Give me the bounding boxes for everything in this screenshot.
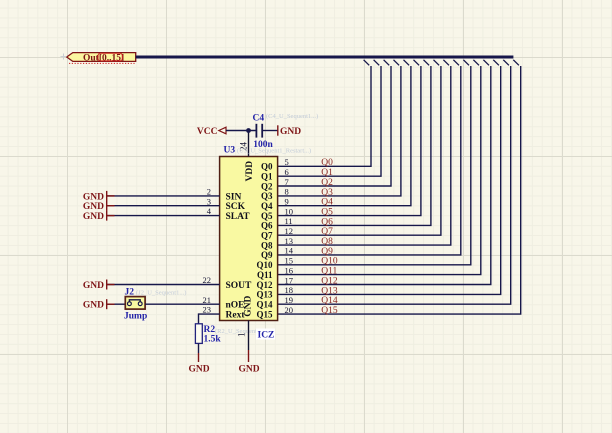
svg-text:Q13: Q13 <box>256 290 273 300</box>
svg-text:Q14: Q14 <box>321 296 338 306</box>
svg-text:U3: U3 <box>224 145 236 155</box>
svg-text:Q1: Q1 <box>261 172 273 182</box>
svg-text:20: 20 <box>285 305 294 315</box>
svg-text:(U3_U_Sequent1_Restart...): (U3_U_Sequent1_Restart...) <box>237 148 311 155</box>
svg-text:Q11: Q11 <box>257 270 273 280</box>
svg-text:Q0: Q0 <box>321 158 333 168</box>
svg-text:Q2: Q2 <box>321 178 333 188</box>
svg-text:Q9: Q9 <box>321 247 333 257</box>
svg-text:Q0: Q0 <box>261 162 273 172</box>
svg-text:SIN: SIN <box>226 192 242 202</box>
svg-text:Q9: Q9 <box>261 250 273 260</box>
svg-text:GND: GND <box>83 202 104 212</box>
svg-text:ICZ: ICZ <box>258 331 275 341</box>
svg-text:GND: GND <box>188 364 209 374</box>
svg-text:3: 3 <box>207 196 211 206</box>
svg-text:Q8: Q8 <box>261 240 273 250</box>
svg-text:Q6: Q6 <box>321 217 333 227</box>
svg-text:21: 21 <box>203 295 212 305</box>
svg-text:Q10: Q10 <box>256 260 273 270</box>
svg-text:Q3: Q3 <box>321 188 333 198</box>
svg-text:VCC: VCC <box>197 127 218 137</box>
svg-text:10: 10 <box>285 206 294 216</box>
svg-text:Q15: Q15 <box>256 309 273 319</box>
svg-text:19: 19 <box>285 295 294 305</box>
svg-text:GND: GND <box>83 281 104 291</box>
svg-text:SCK: SCK <box>226 202 246 212</box>
svg-text:Jump: Jump <box>124 312 147 322</box>
svg-text:1: 1 <box>237 333 247 338</box>
svg-text:1.5k: 1.5k <box>204 334 222 344</box>
svg-text:Q2: Q2 <box>261 181 273 191</box>
svg-text:15: 15 <box>285 256 294 266</box>
svg-text:9: 9 <box>285 197 289 207</box>
svg-text:5: 5 <box>285 157 289 167</box>
svg-text:GND: GND <box>83 301 104 311</box>
svg-text:12: 12 <box>285 226 294 236</box>
svg-text:4: 4 <box>207 206 212 216</box>
svg-text:Q5: Q5 <box>261 211 273 221</box>
svg-text:16: 16 <box>285 265 294 275</box>
svg-text:11: 11 <box>285 216 293 226</box>
svg-text:17: 17 <box>285 275 294 285</box>
svg-text:Q7: Q7 <box>261 231 273 241</box>
svg-text:Q4: Q4 <box>261 201 273 211</box>
svg-text:SOUT: SOUT <box>226 281 253 291</box>
svg-text:Q12: Q12 <box>256 280 273 290</box>
svg-text:J2: J2 <box>125 287 135 297</box>
svg-text:VDD: VDD <box>245 161 255 182</box>
svg-text:Q14: Q14 <box>256 300 273 310</box>
svg-text:Out[0..15]: Out[0..15] <box>83 53 124 63</box>
svg-text:GND: GND <box>280 127 301 137</box>
svg-text:Q12: Q12 <box>321 276 338 286</box>
svg-text:Q7: Q7 <box>321 227 333 237</box>
svg-text:13: 13 <box>285 236 294 246</box>
svg-text:GND: GND <box>83 212 104 222</box>
svg-text:SLAT: SLAT <box>226 212 251 222</box>
svg-text:Q15: Q15 <box>321 306 338 316</box>
svg-text:18: 18 <box>285 285 294 295</box>
svg-text:23: 23 <box>203 305 212 315</box>
svg-text:14: 14 <box>285 246 294 256</box>
svg-text:Q8: Q8 <box>321 237 333 247</box>
svg-text:6: 6 <box>285 167 289 177</box>
svg-text:Q11: Q11 <box>321 267 337 277</box>
svg-text:C4: C4 <box>253 114 265 124</box>
svg-text:Q5: Q5 <box>321 208 333 218</box>
svg-text:GND: GND <box>243 296 253 317</box>
svg-text:Q6: Q6 <box>261 221 273 231</box>
svg-text:GND: GND <box>83 192 104 202</box>
svg-text:Q10: Q10 <box>321 257 338 267</box>
svg-text:Q3: Q3 <box>261 191 273 201</box>
svg-text:Q1: Q1 <box>321 168 333 178</box>
svg-text:Q13: Q13 <box>321 286 338 296</box>
svg-text:(J2_U_Sequent1...): (J2_U_Sequent1...) <box>136 290 186 297</box>
svg-text:2: 2 <box>207 187 211 197</box>
svg-text:22: 22 <box>203 275 212 285</box>
svg-text:Q4: Q4 <box>321 198 333 208</box>
svg-text:GND: GND <box>238 364 259 374</box>
svg-text:nOE: nOE <box>226 301 245 311</box>
svg-text:7: 7 <box>285 177 289 187</box>
svg-text:(C4_U_Sequent1...): (C4_U_Sequent1...) <box>266 113 318 120</box>
svg-text:8: 8 <box>285 187 289 197</box>
